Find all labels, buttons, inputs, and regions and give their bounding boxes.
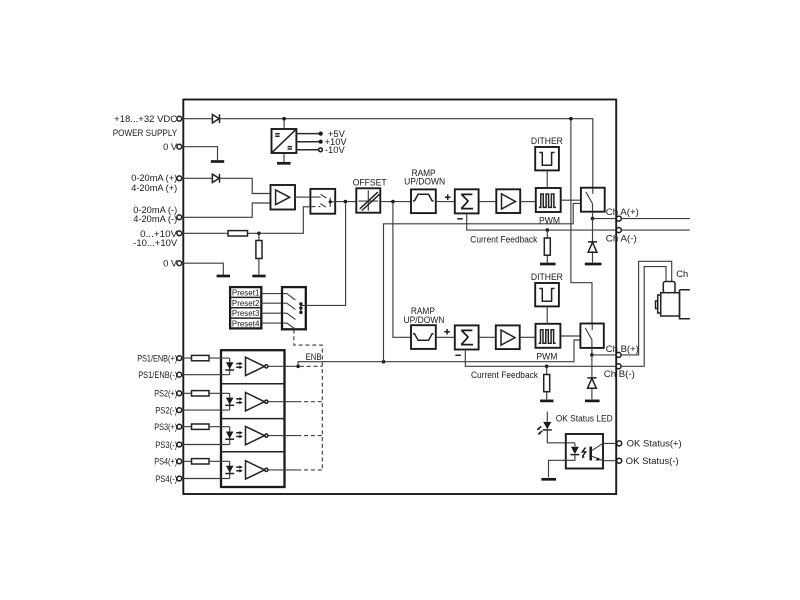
terminal PS2(+) bbox=[177, 391, 182, 396]
svg-text:PS1/ENB(-): PS1/ENB(-) bbox=[138, 369, 177, 380]
wire opto 3 output bbox=[268, 435, 297, 437]
terminal current input plus bbox=[177, 176, 182, 181]
svg-text:PS1/ENB(+): PS1/ENB(+) bbox=[137, 352, 177, 363]
ground shunt B bbox=[540, 400, 553, 403]
terminal Ch A(+) bbox=[616, 216, 621, 221]
node preset injection bbox=[344, 200, 348, 204]
wire supply rail bbox=[182, 119, 593, 188]
optocoupler LED 2 bbox=[226, 398, 234, 405]
wire supply branch to channel B driver bbox=[571, 119, 592, 324]
svg-text:0 V: 0 V bbox=[163, 258, 178, 269]
wire ChA(+) to terminal bbox=[593, 218, 617, 220]
wire switch B to ChB(+) node bbox=[591, 348, 593, 355]
wire freewheel diode A bbox=[592, 219, 594, 263]
terminal voltage input bbox=[177, 231, 182, 236]
node current feedback A bbox=[546, 228, 550, 232]
summer block B bbox=[455, 325, 479, 349]
wire preset selector output to signal node bbox=[306, 202, 346, 306]
output switch A bbox=[581, 188, 605, 212]
wire ramp A to summer bbox=[436, 201, 455, 203]
svg-text:Ch B(+): Ch B(+) bbox=[606, 343, 639, 354]
svg-text:OK Status(-): OK Status(-) bbox=[626, 455, 679, 466]
wire current input plus bbox=[182, 178, 271, 193]
solenoid valve coil bbox=[656, 282, 690, 319]
wire preset 1 to selector bbox=[261, 293, 282, 295]
resistor PS3 input bbox=[192, 424, 210, 429]
wire Ch B(-) to solenoid bbox=[621, 267, 666, 367]
wire opto 1 output ENB bbox=[268, 365, 297, 367]
diode freewheel B bbox=[587, 378, 596, 388]
minus sign summer A bbox=[457, 218, 463, 220]
resistor PS4 input bbox=[192, 459, 210, 464]
diode freewheel A bbox=[588, 242, 597, 252]
svg-text:Σ: Σ bbox=[460, 325, 474, 351]
ground freewheel B bbox=[585, 400, 600, 403]
wire amp B to PWM B bbox=[520, 336, 536, 338]
wire amplifier to selector bbox=[295, 196, 310, 198]
resistor voltage divider bbox=[256, 241, 262, 259]
wire voltage input bbox=[182, 207, 311, 234]
svg-text:PS4(-): PS4(-) bbox=[155, 473, 177, 484]
resistor voltage input series bbox=[228, 231, 248, 236]
node +10V bbox=[319, 140, 323, 144]
svg-text:PS3(-): PS3(-) bbox=[155, 439, 177, 450]
ground shunt A bbox=[540, 263, 556, 266]
wire Ch A(+) external bbox=[621, 218, 689, 220]
svg-text:Ch B(-): Ch B(-) bbox=[604, 368, 635, 379]
svg-text:PWM: PWM bbox=[536, 351, 557, 362]
terminal +18...+32 VDC bbox=[177, 116, 182, 121]
wire preset 3 to selector bbox=[261, 312, 282, 314]
light arrows OK LED bbox=[538, 426, 543, 433]
wire selector to offset bbox=[335, 201, 356, 203]
terminal PS4(+) bbox=[177, 459, 182, 464]
wire PS2 pair bbox=[182, 393, 230, 410]
phototransistor OK status bbox=[589, 447, 592, 461]
wire divider to ground bbox=[258, 233, 260, 274]
optocoupler input block bbox=[221, 350, 285, 487]
summer block A bbox=[455, 189, 479, 213]
lightning symbol opto bbox=[582, 448, 585, 457]
wire +10V output bbox=[296, 141, 319, 143]
resistor shunt A bbox=[544, 238, 550, 255]
svg-text:PS4(+): PS4(+) bbox=[154, 456, 177, 467]
svg-text:PS2(+): PS2(+) bbox=[154, 388, 177, 399]
resistor shunt B bbox=[544, 375, 550, 392]
wire preset 2 to selector bbox=[261, 302, 282, 304]
ground freewheel A bbox=[585, 263, 602, 266]
svg-text:-10...+10V: -10...+10V bbox=[133, 237, 178, 248]
ramp generator B bbox=[411, 325, 436, 349]
wire dashed ENB tap 2 bbox=[297, 401, 322, 403]
LED inside optocoupler bbox=[574, 443, 576, 447]
svg-text:Ch: Ch bbox=[676, 268, 688, 279]
ground 0V analog bbox=[217, 275, 230, 278]
wire shunt A bbox=[546, 230, 548, 262]
wire freewheel diode B bbox=[591, 355, 593, 400]
preset selector switch S2 bbox=[282, 287, 306, 329]
buffer amplifier 2 bbox=[246, 393, 265, 411]
svg-text:DITHER: DITHER bbox=[531, 271, 563, 282]
svg-text:PS2(-): PS2(-) bbox=[155, 405, 177, 416]
wire summer B to power amp B bbox=[479, 336, 496, 338]
wire dashed ENB tap 3 bbox=[297, 435, 322, 437]
ramp generator A bbox=[411, 189, 436, 213]
wire Ch A(-) external bbox=[621, 229, 689, 231]
dither oscillator B bbox=[535, 283, 559, 306]
optocoupler OK status bbox=[566, 434, 603, 469]
wire summer to power amp A bbox=[479, 201, 497, 203]
node +5V bbox=[319, 132, 323, 136]
wire DC/DC tap bbox=[283, 119, 285, 129]
wire switch A to ChA(+) node bbox=[592, 212, 594, 219]
svg-text:DITHER: DITHER bbox=[531, 135, 563, 146]
terminal PS1/ENB(-) bbox=[177, 372, 182, 377]
svg-text:Ch A(-): Ch A(-) bbox=[606, 233, 637, 244]
output switch B bbox=[580, 324, 603, 348]
svg-text:ENB: ENB bbox=[306, 351, 322, 362]
wire PWM B to output switch B bbox=[560, 335, 580, 337]
ground OK opto bbox=[541, 478, 556, 481]
node ChA(+) bbox=[591, 217, 595, 221]
optocoupler LED 4 bbox=[226, 466, 234, 473]
svg-text:Preset1: Preset1 bbox=[232, 288, 260, 298]
buffer amplifier 4 bbox=[246, 461, 265, 479]
wire 0V analog to ground bbox=[182, 263, 224, 274]
wire ChA(-) return bbox=[467, 213, 617, 230]
svg-text:OK Status LED: OK Status LED bbox=[556, 412, 613, 423]
terminal PS3(+) bbox=[177, 424, 182, 429]
terminal 0V analog bbox=[177, 261, 182, 266]
terminal OK Status(+) bbox=[617, 441, 622, 446]
wire current input minus bbox=[182, 203, 271, 217]
module enclosure bbox=[183, 100, 616, 495]
wire opto 4 output bbox=[268, 469, 297, 471]
preset value register stack bbox=[230, 287, 261, 328]
wire ENB to switch A bbox=[384, 203, 581, 361]
op-amp power stage B bbox=[496, 325, 520, 349]
wire opto 2 output bbox=[268, 401, 297, 403]
terminal PS3(-) bbox=[177, 442, 182, 447]
wire shunt B bbox=[546, 366, 548, 399]
svg-text:Preset4: Preset4 bbox=[232, 319, 260, 329]
svg-text:Preset2: Preset2 bbox=[232, 298, 260, 308]
svg-text:4-20mA (-): 4-20mA (-) bbox=[133, 213, 177, 224]
wire PS4 pair bbox=[182, 461, 230, 478]
wire dashed ENB tap 1 bbox=[300, 365, 322, 367]
node -10V bbox=[319, 148, 323, 152]
svg-text:POWER SUPPLY: POWER SUPPLY bbox=[113, 127, 178, 138]
wire dashed ENB tap 4 bbox=[297, 469, 322, 471]
ground DC/DC bbox=[277, 162, 291, 165]
svg-text:PS3(+): PS3(+) bbox=[154, 421, 177, 432]
junction supply branch bbox=[569, 117, 573, 121]
optocoupler LED 3 bbox=[226, 432, 234, 439]
svg-text:OFFSET: OFFSET bbox=[353, 177, 387, 188]
diode D1 supply bbox=[212, 114, 219, 123]
terminal PS1/ENB(+) bbox=[177, 356, 182, 361]
input selector switch S1 bbox=[310, 189, 335, 214]
node ChB(+) bbox=[590, 353, 594, 357]
terminal OK Status(-) bbox=[617, 458, 622, 463]
svg-text:OK Status(+): OK Status(+) bbox=[627, 438, 682, 449]
dither oscillator A bbox=[535, 147, 559, 170]
svg-text:UP/DOWN: UP/DOWN bbox=[404, 175, 445, 186]
wire PS3 pair bbox=[182, 427, 230, 445]
wire offset to ramp A bbox=[380, 201, 411, 203]
node current feedback B bbox=[545, 365, 549, 369]
wire LED to optocoupler bbox=[547, 430, 575, 443]
wire preset 4 to selector bbox=[261, 322, 282, 324]
node channel B branch bbox=[391, 200, 395, 204]
terminal Ch B(+) bbox=[616, 352, 621, 357]
wire ramp B to summer B bbox=[436, 336, 455, 338]
terminal 0V power bbox=[177, 144, 182, 149]
svg-text:0 V: 0 V bbox=[163, 141, 178, 152]
offset adjust block bbox=[356, 188, 380, 212]
resistor PS2 input bbox=[192, 391, 210, 396]
junction voltage divider bbox=[257, 232, 261, 236]
terminal Ch A(-) bbox=[616, 228, 621, 233]
terminal PS4(-) bbox=[177, 476, 182, 481]
svg-text:Current Feedback: Current Feedback bbox=[470, 233, 537, 244]
node ENB source bbox=[296, 365, 300, 369]
svg-text:Ch A(+): Ch A(+) bbox=[606, 206, 639, 217]
buffer amplifier 1 bbox=[246, 357, 265, 375]
ground voltage divider bbox=[252, 275, 265, 278]
node ENB riser bbox=[382, 360, 386, 364]
wire Ch B(+) to solenoid bbox=[621, 261, 672, 355]
LED OK status indicator bbox=[543, 422, 551, 429]
wire -10V output bbox=[296, 149, 318, 151]
DC/DC converter U1 bbox=[272, 129, 297, 153]
wire channel B branch riser bbox=[393, 202, 411, 338]
wire ChB(-) return bbox=[465, 350, 616, 367]
optocoupler LED 1 bbox=[226, 362, 234, 369]
wire ENB main bbox=[298, 340, 580, 366]
resistor PS1 input bbox=[192, 355, 210, 360]
junction DC/DC tap bbox=[282, 117, 286, 121]
op-amp power stage A bbox=[496, 189, 520, 213]
terminal current input minus bbox=[177, 215, 182, 220]
terminal Ch B(-) bbox=[616, 364, 621, 369]
svg-text:+18...+32 VDC: +18...+32 VDC bbox=[114, 113, 177, 124]
ground 0V power bbox=[211, 160, 224, 163]
svg-text:UP/DOWN: UP/DOWN bbox=[404, 314, 445, 325]
op-amp input amplifier bbox=[271, 185, 296, 210]
wire PWM A to output switch A bbox=[561, 199, 581, 201]
wire PS1 pair bbox=[182, 358, 230, 375]
buffer amplifier 3 bbox=[246, 426, 265, 444]
diode D2 current input bbox=[212, 174, 219, 183]
svg-text:Current Feedback: Current Feedback bbox=[471, 369, 538, 380]
svg-text:Preset3: Preset3 bbox=[232, 308, 260, 318]
wire ChB(+) to terminal bbox=[592, 354, 616, 356]
svg-text:4-20mA (+): 4-20mA (+) bbox=[131, 182, 177, 193]
wire amp A to PWM A bbox=[520, 201, 536, 203]
wire dither A to PWM A bbox=[546, 170, 548, 188]
PWM stage B bbox=[536, 324, 561, 348]
PWM stage A bbox=[536, 188, 561, 212]
terminal PS2(-) bbox=[177, 408, 182, 413]
plus sign summer A bbox=[445, 194, 451, 200]
wire dither B to PWM B bbox=[546, 306, 548, 323]
plus sign summer B bbox=[444, 329, 450, 335]
minus sign summer B bbox=[455, 354, 461, 356]
wire +5V output bbox=[296, 133, 319, 135]
svg-text:-10V: -10V bbox=[325, 144, 346, 155]
wire ENB dashed to preset selector bbox=[294, 330, 322, 471]
wire DC/DC ground bbox=[283, 153, 285, 162]
svg-text:Σ: Σ bbox=[460, 189, 474, 215]
wire OK status LED feed bbox=[546, 412, 548, 422]
wire 0V power to ground bbox=[182, 147, 218, 160]
